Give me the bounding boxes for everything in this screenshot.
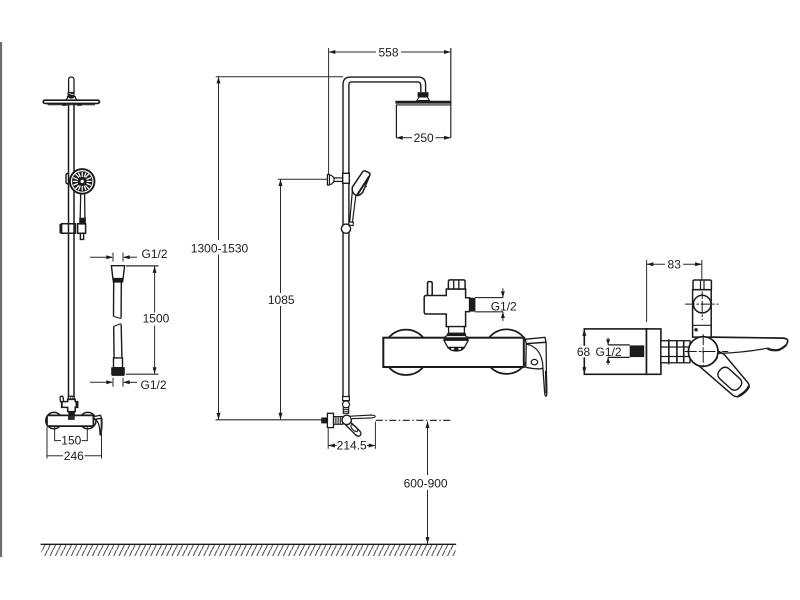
handle edge shading bbox=[738, 386, 749, 396]
dimension 150 bbox=[55, 427, 88, 441]
svg-text:250: 250 bbox=[414, 131, 434, 145]
mixer side: spout bbox=[351, 415, 376, 419]
handle oval hole bbox=[531, 359, 537, 364]
pipe bottom ball joint bbox=[343, 401, 350, 408]
hand shower head (side) bbox=[352, 171, 370, 196]
diverter cross assembly bbox=[62, 399, 78, 411]
head connector nut bbox=[418, 92, 429, 97]
dimension 214.5 bbox=[327, 428, 329, 449]
hand shower spray face bbox=[72, 171, 92, 191]
hose top cone fitting bbox=[111, 266, 124, 376]
mixer side: body circle bbox=[342, 415, 351, 424]
mixer handle right bbox=[93, 415, 101, 419]
SECTION-E bbox=[577, 258, 788, 397]
knob nut bbox=[68, 93, 74, 96]
handle-circle dark junction bbox=[706, 357, 717, 365]
column flare base bbox=[444, 336, 469, 338]
flare collar bbox=[65, 97, 77, 101]
svg-text:1500: 1500 bbox=[143, 312, 170, 326]
hose bottom nut bbox=[114, 358, 123, 368]
pipe bracket clamp bbox=[66, 173, 68, 183]
arm to pipe bbox=[334, 177, 343, 179]
riser pipe side view with bend bbox=[343, 77, 426, 397]
pipe bottom nut bbox=[343, 397, 350, 401]
left arm end cap bbox=[61, 402, 63, 407]
G1/2 top callout arrows bbox=[90, 253, 137, 262]
diverter column (side) bbox=[693, 290, 712, 338]
ball joint bbox=[68, 95, 74, 99]
dimension 246 bbox=[47, 419, 102, 459]
thread black block bbox=[630, 345, 645, 357]
pipe junction box bbox=[343, 173, 350, 183]
G1/2 callout lines bbox=[475, 297, 503, 299]
SECTION-D bbox=[383, 280, 546, 396]
right nub dark bbox=[76, 402, 78, 407]
svg-text:83: 83 bbox=[668, 258, 682, 272]
dimension 250 bbox=[396, 137, 412, 139]
dimension 558 bbox=[328, 48, 330, 176]
svg-text:558: 558 bbox=[378, 46, 398, 60]
top knob of riser bbox=[69, 77, 74, 93]
mixer body circle (side) bbox=[688, 337, 718, 367]
ground hatching bbox=[42, 545, 456, 556]
diverter cap (side) bbox=[693, 280, 711, 290]
svg-text:246: 246 bbox=[64, 449, 84, 463]
handle blade dark edge bbox=[545, 371, 548, 393]
hand shower outer rim bbox=[70, 169, 95, 194]
handle body and blade bbox=[526, 342, 547, 396]
dimension 1300-1530 extension top bbox=[216, 76, 343, 78]
svg-text:G1/2: G1/2 bbox=[491, 299, 517, 313]
center line dash-dot bbox=[376, 419, 452, 421]
hand shower handle (side) bbox=[350, 190, 353, 222]
hose stub below holder bbox=[80, 233, 83, 239]
diverter neck with rings bbox=[69, 412, 74, 416]
G1/2 bottom callout arrows bbox=[90, 378, 137, 387]
svg-text:G1/2: G1/2 bbox=[141, 378, 167, 392]
svg-text:G1/2: G1/2 bbox=[142, 247, 168, 261]
mixer side: threaded section bbox=[334, 417, 343, 425]
mixer mount circle right bbox=[80, 412, 96, 428]
neck into mixer bbox=[343, 408, 348, 414]
threaded nipple bbox=[661, 341, 690, 363]
svg-text:68: 68 bbox=[577, 345, 591, 359]
wall mount circle right bbox=[484, 329, 529, 374]
overhead shower disc bbox=[43, 100, 99, 103]
diverter cross body bbox=[424, 289, 469, 327]
dimension 1085 line bbox=[280, 179, 282, 293]
dimension 1500 bbox=[154, 266, 156, 312]
mixer side: flange bbox=[327, 413, 333, 427]
shower outlet thread black band bbox=[470, 298, 476, 312]
slide holder block bbox=[60, 224, 85, 233]
riser pipe (front view) bbox=[68, 104, 70, 400]
SECTION-B bbox=[90, 247, 170, 392]
svg-text:G1/2: G1/2 bbox=[596, 345, 622, 359]
diverter cap knob bbox=[448, 280, 465, 289]
handle inner curve bbox=[527, 344, 543, 368]
G1/2 thread callout inside box bbox=[608, 344, 630, 346]
mounting collar on body bbox=[68, 416, 75, 420]
diverter left lever bbox=[60, 396, 64, 402]
wall mount circle left bbox=[383, 330, 428, 375]
mixer side: handle lever bbox=[345, 420, 361, 436]
handle lever (side) bbox=[698, 351, 749, 397]
dimension 1300-1530 line bbox=[218, 77, 220, 240]
set screw dot bbox=[694, 328, 697, 331]
wall union box bbox=[584, 329, 646, 374]
handle swivel connector bbox=[80, 218, 85, 224]
handle top face bbox=[526, 337, 547, 343]
disc bottom plate bbox=[48, 104, 95, 106]
svg-text:150: 150 bbox=[61, 434, 81, 448]
column joint line bbox=[693, 324, 712, 326]
wall line extension bottom bbox=[216, 419, 322, 421]
spout (side) bbox=[711, 337, 788, 345]
dimension 1500 extension lines bbox=[126, 265, 159, 267]
mixer body front bbox=[47, 415, 93, 426]
SECTION-C bbox=[41, 46, 457, 556]
svg-text:600-900: 600-900 bbox=[404, 476, 448, 490]
dimension 600-900 bbox=[427, 422, 429, 476]
mixer side: wall block bbox=[321, 418, 327, 424]
wall bracket of hand shower arm bbox=[327, 175, 334, 186]
diverter knob circle (side) bbox=[693, 295, 711, 313]
handle slot hole bbox=[716, 365, 744, 392]
dimension 68 arrows bbox=[582, 329, 586, 336]
union flange bbox=[647, 329, 661, 374]
overhead shower head drum bbox=[395, 101, 451, 104]
diverter left tab bbox=[428, 282, 433, 297]
disc under-tabs bbox=[62, 104, 67, 106]
svg-text:214.5: 214.5 bbox=[337, 439, 367, 453]
slider ring on pipe bbox=[341, 224, 350, 233]
dimension 83 bbox=[646, 260, 648, 322]
hose upper segment bbox=[113, 282, 115, 316]
dimension 1085 extension top bbox=[278, 178, 328, 180]
ground line bbox=[41, 543, 457, 545]
hand shower handle bbox=[79, 194, 82, 218]
svg-text:1300-1530: 1300-1530 bbox=[191, 241, 249, 255]
hose lower segment bbox=[114, 324, 122, 327]
pipe collar nut bbox=[68, 396, 74, 399]
mixer body front bbox=[383, 338, 524, 367]
column lower ring section bbox=[449, 327, 465, 334]
spout top heavy edge bbox=[444, 338, 469, 340]
aerator dark lens bbox=[448, 347, 465, 352]
mixer mount circle left bbox=[46, 412, 62, 428]
spout cone bbox=[444, 340, 469, 348]
svg-text:1085: 1085 bbox=[268, 293, 295, 307]
page left edge line bbox=[0, 42, 2, 557]
